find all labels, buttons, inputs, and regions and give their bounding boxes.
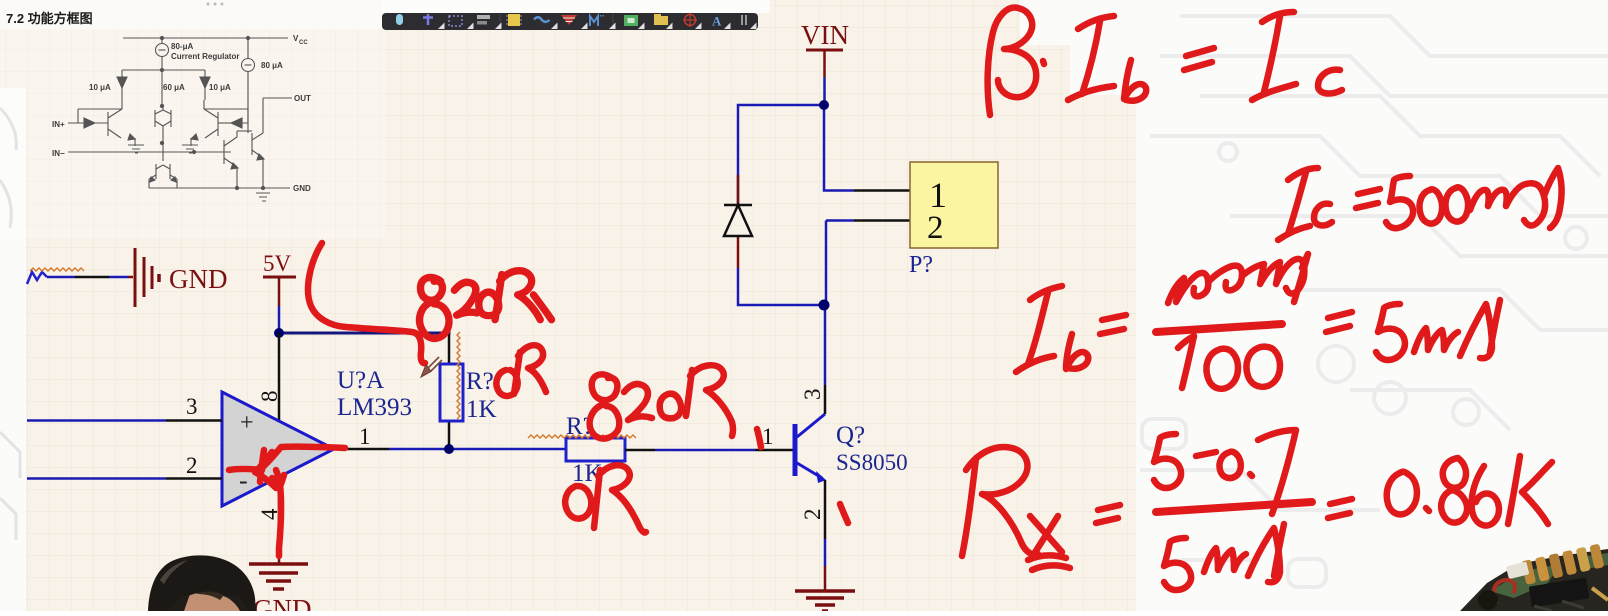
svg-text:80-μA: 80-μA xyxy=(171,42,193,51)
svg-text:3: 3 xyxy=(186,394,198,419)
svg-text:60 μA: 60 μA xyxy=(163,83,185,92)
svg-text:3: 3 xyxy=(800,389,825,401)
svg-text:1K: 1K xyxy=(466,396,497,423)
svg-text:''': ''' xyxy=(600,15,604,22)
svg-text:Current Regulator: Current Regulator xyxy=(171,52,239,61)
svg-text:GND: GND xyxy=(169,264,228,294)
svg-text:80 μA: 80 μA xyxy=(261,61,283,70)
svg-text:2: 2 xyxy=(186,453,198,478)
svg-text:IN−: IN− xyxy=(52,149,65,158)
svg-text:2: 2 xyxy=(927,210,944,246)
svg-text:IN+: IN+ xyxy=(52,120,65,129)
svg-text:1: 1 xyxy=(359,424,371,449)
svg-text:LM393: LM393 xyxy=(337,394,412,421)
svg-text:5V: 5V xyxy=(263,251,292,276)
svg-text:1: 1 xyxy=(929,175,947,215)
svg-text:U?A: U?A xyxy=(337,367,384,394)
svg-text:10 μA: 10 μA xyxy=(209,83,231,92)
svg-text:GND: GND xyxy=(253,594,312,611)
svg-text:SS8050: SS8050 xyxy=(836,450,908,475)
svg-text:Q?: Q? xyxy=(836,422,865,449)
svg-text:CC: CC xyxy=(299,40,308,46)
svg-text:P?: P? xyxy=(909,252,933,278)
svg-text:10 μA: 10 μA xyxy=(89,83,111,92)
svg-text:+: + xyxy=(240,410,254,436)
svg-text:OUT: OUT xyxy=(294,94,311,103)
svg-text:8: 8 xyxy=(257,391,282,403)
svg-text:R?: R? xyxy=(466,368,494,395)
svg-text:2: 2 xyxy=(800,509,825,521)
svg-text:VIN: VIN xyxy=(801,20,849,50)
svg-text:7.2 功能方框图: 7.2 功能方框图 xyxy=(6,11,93,26)
svg-text:GND: GND xyxy=(293,184,311,193)
svg-text:A: A xyxy=(712,14,722,29)
